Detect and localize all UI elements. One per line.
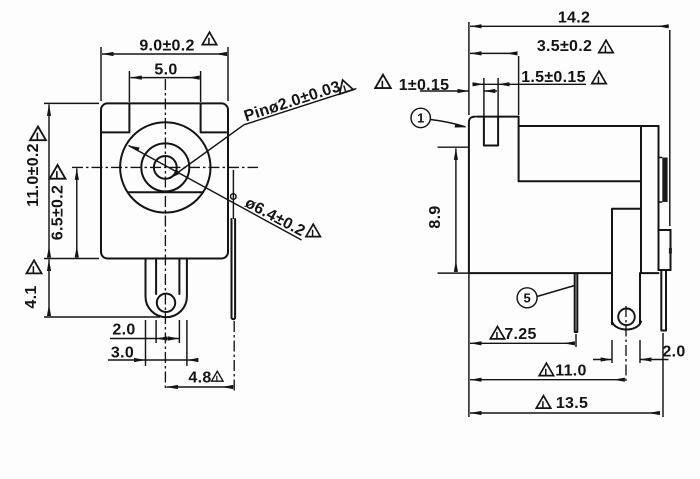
svg-text:6.5±0.2: 6.5±0.2 bbox=[50, 185, 67, 240]
svg-text:8.9: 8.9 bbox=[427, 205, 444, 228]
svg-text:13.5: 13.5 bbox=[556, 395, 588, 412]
svg-text:3.5±0.2: 3.5±0.2 bbox=[537, 38, 592, 55]
svg-text:3.0: 3.0 bbox=[111, 345, 134, 362]
svg-text:1: 1 bbox=[417, 111, 424, 126]
svg-text:14.2: 14.2 bbox=[558, 10, 590, 27]
svg-text:2.0: 2.0 bbox=[112, 322, 135, 339]
svg-text:11.0: 11.0 bbox=[555, 363, 586, 380]
svg-text:2.0: 2.0 bbox=[662, 344, 685, 361]
svg-text:1.5±0.15: 1.5±0.15 bbox=[521, 69, 586, 86]
svg-text:Pinø2.0±0.03: Pinø2.0±0.03 bbox=[242, 78, 343, 125]
svg-text:9.0±0.2: 9.0±0.2 bbox=[139, 38, 194, 55]
svg-text:1±0.15: 1±0.15 bbox=[399, 77, 450, 94]
svg-text:5: 5 bbox=[523, 290, 530, 305]
svg-text:11.0±0.2: 11.0±0.2 bbox=[25, 143, 42, 207]
svg-text:4.1: 4.1 bbox=[23, 285, 40, 308]
svg-text:7.25: 7.25 bbox=[504, 326, 536, 343]
svg-text:ø6.4±0.2: ø6.4±0.2 bbox=[242, 195, 308, 241]
svg-text:4.8: 4.8 bbox=[188, 370, 211, 387]
svg-text:5.0: 5.0 bbox=[154, 62, 177, 79]
